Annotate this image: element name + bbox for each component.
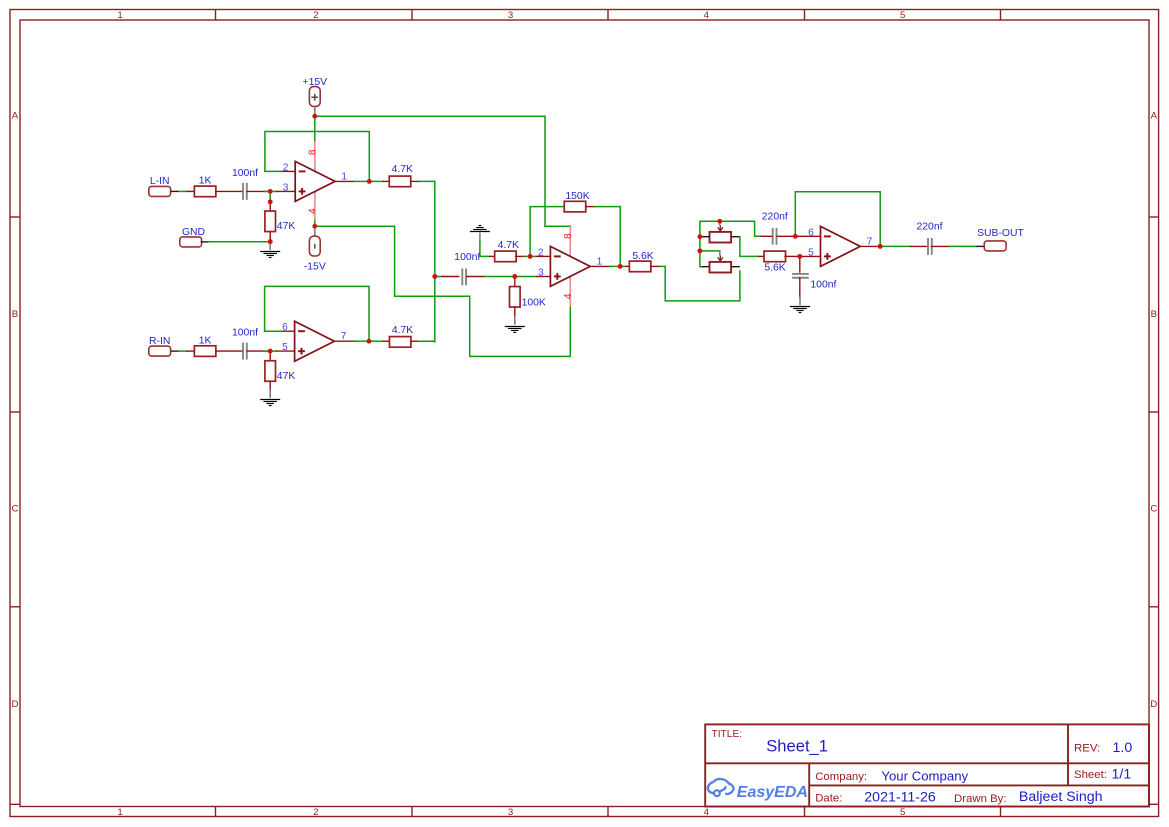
junction node GND-L <box>268 239 273 244</box>
junction U3 output <box>878 244 883 249</box>
wire feedback loop U1B <box>265 286 369 341</box>
svg-text:1.0: 1.0 <box>1113 740 1133 756</box>
pin wire 47K bottom <box>269 232 271 239</box>
power pin 4 wire (op-amp U2) <box>569 286 571 307</box>
svg-text:1: 1 <box>341 171 347 182</box>
wire +15V flag stub <box>314 107 316 114</box>
wire R1 to C1 <box>216 190 243 192</box>
svg-text:47K: 47K <box>277 221 296 232</box>
wire U2 output to R7 <box>623 265 630 267</box>
wire pot tap to C5 <box>761 235 772 237</box>
wire pot rail middle <box>699 237 701 251</box>
wire pot1 left terminal <box>702 236 710 238</box>
svg-text:1: 1 <box>597 256 603 267</box>
svg-text:R-IN: R-IN <box>149 336 170 347</box>
svg-text:100nf: 100nf <box>810 280 836 291</box>
pin wire 100nf bottom <box>799 278 801 296</box>
wire node R to op-amp pin 5 <box>265 350 295 352</box>
op-amp U3 (output) <box>808 226 873 266</box>
wire 150K right leg down <box>619 207 621 267</box>
resistor 4.7K (right channel) <box>389 325 413 347</box>
svg-text:4.7K: 4.7K <box>392 325 413 336</box>
svg-text:C: C <box>12 503 19 514</box>
wire 150K to U2 output <box>586 206 621 208</box>
junction node L <box>268 189 273 194</box>
svg-text:1K: 1K <box>199 335 212 346</box>
svg-text:B: B <box>12 309 18 320</box>
wire C3 to node U2+ <box>467 276 513 278</box>
wire C5 to node U3- <box>777 235 793 237</box>
svg-text:3: 3 <box>283 182 289 193</box>
svg-text:3: 3 <box>508 807 513 818</box>
resistor 5.6K (U2 output) <box>629 251 653 272</box>
junction pot rail node 2 <box>697 248 702 253</box>
wire op-amp U2 output pin 1 <box>590 265 618 267</box>
wire 100nf to ground stub <box>799 296 801 297</box>
pin wire 47K-2 bottom <box>269 381 271 390</box>
wire C2 to node R <box>247 350 267 352</box>
wire summing node to C3 <box>437 276 459 278</box>
svg-text:Baljeet Singh: Baljeet Singh <box>1019 789 1103 805</box>
svg-text:5: 5 <box>900 807 905 818</box>
svg-text:Date:: Date: <box>815 792 842 804</box>
op-amp U2 (mixer) <box>538 246 603 286</box>
wire C1 to node L <box>247 190 267 192</box>
wire pot2 wiper <box>700 251 720 256</box>
wire pot1 right down to R8 <box>740 237 759 257</box>
svg-text:5: 5 <box>808 247 814 258</box>
wire pot rail to pot2 left <box>700 251 702 267</box>
svg-text:GND: GND <box>182 227 205 238</box>
svg-text:+15V: +15V <box>303 77 328 88</box>
junction pot rail node 1 <box>697 234 702 239</box>
wire node L to op-amp pin 3 <box>265 190 296 192</box>
svg-text:220nf: 220nf <box>762 212 788 223</box>
junction node U3+ <box>797 254 802 259</box>
wire op-amp U1 output pin 1 <box>335 180 367 182</box>
svg-text:Drawn By:: Drawn By: <box>954 793 1007 805</box>
port R-IN <box>149 336 171 356</box>
op-amp U1B (right channel) <box>282 321 347 361</box>
svg-text:47K: 47K <box>277 371 296 382</box>
resistor 1K (left channel) <box>194 176 216 197</box>
pin wire 100K top <box>514 279 516 287</box>
junction node R <box>268 349 273 354</box>
wire R3 to summing node <box>411 180 435 182</box>
svg-text:2: 2 <box>538 247 544 258</box>
svg-text:Sheet:: Sheet: <box>1074 769 1107 781</box>
wire feedback loop U3 <box>795 192 880 247</box>
pin wire 100nf top <box>799 259 801 272</box>
resistor 4.7K (U2 inverting) <box>495 240 519 262</box>
svg-text:7: 7 <box>341 331 347 342</box>
junction summing node <box>432 274 437 279</box>
wire node U3- to U3 pin 6 <box>798 235 821 237</box>
wire op-amp U1 pin 2 <box>265 170 295 172</box>
svg-text:1: 1 <box>117 10 122 21</box>
wire feedback to 150K <box>530 207 564 257</box>
title block texts <box>712 729 1133 805</box>
power flag -15V <box>304 236 326 273</box>
svg-text:-15V: -15V <box>304 262 326 273</box>
svg-text:4.7K: 4.7K <box>392 164 413 175</box>
svg-text:100K: 100K <box>522 297 546 308</box>
svg-text:4: 4 <box>563 293 574 299</box>
power pin 8 wire (op-amp U1) <box>314 140 316 161</box>
wire R8 to node U3+ <box>785 255 797 257</box>
wire +15V rail to U2 pin 8 <box>315 116 571 226</box>
wire R7 to pot network <box>651 266 740 301</box>
wire pot2 right terminal <box>731 266 740 268</box>
wire R-IN to R2 <box>171 350 195 352</box>
wire op-amp U1B output pin 7 <box>334 340 366 342</box>
svg-text:5: 5 <box>282 342 288 353</box>
capacitor 100nf (U3 filter) <box>792 274 836 291</box>
svg-text:1: 1 <box>117 807 122 818</box>
wire -15V rail to U2 pin 4 <box>315 226 571 356</box>
wire +15V vertical to U1 pin 8 <box>314 116 316 140</box>
svg-text:Company:: Company: <box>815 771 867 783</box>
wire pot rail top <box>700 221 761 236</box>
ground (output filter) <box>790 297 810 313</box>
svg-text:5: 5 <box>900 10 905 21</box>
ground (inverted, U2 inverting input) <box>470 226 490 242</box>
svg-text:D: D <box>1150 699 1157 710</box>
svg-text:6: 6 <box>808 227 814 238</box>
EasyEDA logo <box>708 779 808 801</box>
capacitor 220nf (output) <box>916 222 942 255</box>
op-amp U1 (left channel) <box>283 161 348 201</box>
wire U1B output to R4 <box>372 340 390 342</box>
resistor 100K <box>510 287 546 309</box>
wire R5 to node U2- <box>516 255 528 257</box>
capacitor 220nf (U3 inverting) <box>762 212 788 245</box>
wire node L to node L2 <box>269 194 271 199</box>
svg-text:Sheet_1: Sheet_1 <box>766 736 828 755</box>
wire L-IN to R1 <box>171 190 195 192</box>
capacitor 100nf (left channel) <box>232 168 258 200</box>
svg-text:8: 8 <box>563 233 574 239</box>
wire op-amp U1B pin 6 <box>265 330 295 332</box>
svg-text:7: 7 <box>867 236 873 247</box>
svg-text:3: 3 <box>508 10 513 21</box>
potentiometer RP1 <box>710 225 732 242</box>
svg-text:100nf: 100nf <box>232 168 258 179</box>
svg-text:D: D <box>12 699 19 710</box>
pin wire 100K bottom <box>514 307 516 316</box>
power flag +15V <box>303 77 328 107</box>
svg-text:220nf: 220nf <box>916 222 942 233</box>
power pin 4 wire (op-amp U1) <box>314 201 316 221</box>
wire ground to R5 <box>480 241 495 256</box>
wire feedback loop U1 <box>265 132 369 182</box>
svg-text:EasyEDA: EasyEDA <box>737 784 808 801</box>
pin wire 47K top <box>269 204 271 211</box>
svg-text:SUB-OUT: SUB-OUT <box>977 228 1024 239</box>
wire GND port to node GND-L <box>201 241 268 243</box>
port SUB-OUT <box>977 228 1024 251</box>
svg-text:4: 4 <box>704 807 710 818</box>
svg-text:REV:: REV: <box>1074 742 1100 754</box>
resistor 4.7K (left channel) <box>389 164 413 187</box>
resistor 1K (right channel) <box>194 335 216 356</box>
svg-text:B: B <box>1151 309 1157 320</box>
svg-text:TITLE:: TITLE: <box>712 729 743 740</box>
svg-text:1K: 1K <box>199 176 212 187</box>
svg-text:2021-11-26: 2021-11-26 <box>864 789 936 805</box>
wire to C4 <box>759 255 765 257</box>
svg-text:A: A <box>1151 110 1158 121</box>
wire U1 pin4 to -15V node <box>314 221 316 226</box>
junction pot1 wiper tap <box>717 219 722 224</box>
svg-text:5.6K: 5.6K <box>764 263 785 274</box>
svg-text:A: A <box>12 110 19 121</box>
wire pot2 left terminal <box>702 266 710 268</box>
junction node U2+ <box>512 274 517 279</box>
pin wire 47K-2 top <box>269 354 271 361</box>
svg-text:L-IN: L-IN <box>150 176 170 187</box>
ground (left channel) <box>260 242 280 258</box>
svg-text:1/1: 1/1 <box>1112 766 1132 782</box>
junction node U3- <box>793 234 798 239</box>
junction -15V node <box>312 224 317 229</box>
wire R4 to summing node <box>411 340 435 342</box>
title block <box>705 724 1149 806</box>
wire R2 to C2 <box>216 350 243 352</box>
svg-text:8: 8 <box>308 149 319 155</box>
svg-text:4.7K: 4.7K <box>498 240 519 251</box>
svg-text:4: 4 <box>704 10 710 21</box>
port GND <box>180 227 205 247</box>
capacitor 100nf (right channel) <box>232 327 258 359</box>
svg-text:Your Company: Your Company <box>881 768 968 783</box>
junction node L2 <box>268 199 273 204</box>
junction U1 output <box>367 179 372 184</box>
svg-text:3: 3 <box>538 267 544 278</box>
junction node U2- <box>528 254 533 259</box>
wire node U2- to U2 pin 2 <box>533 255 551 257</box>
svg-text:C: C <box>1150 503 1157 514</box>
resistor 47K (right channel) <box>265 361 295 382</box>
svg-text:2: 2 <box>313 807 318 818</box>
power pin 8 wire (op-amp U2) <box>569 226 571 246</box>
wire pot1 wiper <box>719 223 721 225</box>
junction U1B output <box>367 339 372 344</box>
resistor 47K (left channel) <box>265 211 295 232</box>
ground (right channel) <box>260 389 280 405</box>
svg-text:100nf: 100nf <box>454 252 480 263</box>
potentiometer RP2 <box>710 255 732 272</box>
wire op-amp U3 output pin 7 <box>860 245 877 247</box>
resistor 5.6K (U3 input) <box>764 251 786 274</box>
wire node U3+ to U3 pin 5 <box>802 255 820 257</box>
resistor 150K <box>564 191 589 212</box>
wire C6 to SUB-OUT <box>931 245 984 247</box>
svg-text:4: 4 <box>308 208 319 214</box>
ground (100K) <box>505 316 525 332</box>
wire -15V flag stub <box>314 229 316 237</box>
capacitor 100nf (summing) <box>454 252 480 285</box>
svg-text:5.6K: 5.6K <box>632 251 653 262</box>
wire pot1 right terminal <box>731 236 740 238</box>
svg-text:100nf: 100nf <box>232 327 258 338</box>
junction +15V node <box>312 114 317 119</box>
wire U3 output to C6 <box>883 245 927 247</box>
wire U1 output to R3 <box>372 180 389 182</box>
wire node U2+ to U2 pin 3 <box>517 276 550 278</box>
wire summing bus vertical <box>434 181 436 342</box>
svg-text:2: 2 <box>313 10 318 21</box>
junction U2 output <box>618 264 623 269</box>
port L-IN <box>149 176 171 196</box>
svg-text:150K: 150K <box>565 191 589 202</box>
